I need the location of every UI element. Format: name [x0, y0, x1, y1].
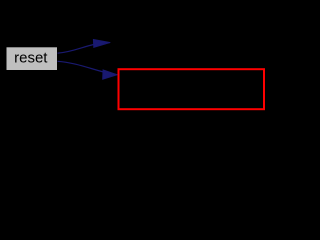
node top-right (black outline, invisible on black background) [111, 32, 261, 55]
wire: edge from reset to red node [58, 61, 118, 74]
wire: edge from reset to top node [58, 43, 110, 54]
arrowhead of bottom edge [103, 70, 118, 80]
node bottom-right (red outlined box) [119, 69, 265, 109]
node reset (current node, grey filled) [7, 47, 58, 70]
svg-text:reset: reset [14, 50, 48, 67]
arrowhead of top edge [93, 39, 110, 47]
